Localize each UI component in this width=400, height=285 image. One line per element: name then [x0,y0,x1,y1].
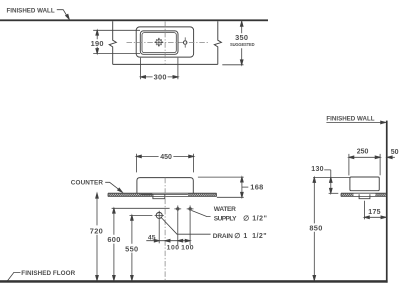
sink body (elevation) [137,178,193,194]
svg-text:600: 600 [107,235,120,244]
counter hatch left (side) [341,194,353,197]
counter hatch right (side) [375,194,386,197]
svg-text:168: 168 [250,182,263,191]
water supply leader [191,210,210,216]
svg-text:250: 250 [357,148,369,155]
dim 250 extension lines [349,154,380,176]
svg-text:FINISHED WALL: FINISHED WALL [326,115,374,122]
svg-text:175: 175 [368,209,381,216]
svg-text:FINISHED WALL: FINISHED WALL [7,8,55,15]
basin rim outer (plan) [140,31,178,54]
drain extension line down [158,220,160,243]
bottom dimension line 45/100/100 [146,240,190,242]
svg-text:350: 350 [235,33,248,42]
svg-text:WATER: WATER [214,206,236,213]
dim 168 leader [242,186,248,188]
counter top extension line (side) [329,192,339,194]
svg-text:∅ 1 1/2": ∅ 1 1/2" [234,232,267,240]
floor leader [7,272,20,281]
sink rim extension line (left) [313,177,350,179]
wall (side view, thick vertical) [386,121,388,283]
svg-text:DRAIN: DRAIN [213,233,233,240]
dim 550 line [131,215,133,280]
svg-text:190: 190 [91,39,104,48]
counter hatch right [188,194,216,197]
drain tailpiece (side view) [359,194,370,198]
dim 168 extension lines [198,177,244,197]
basin rim inner (plan) [142,33,176,53]
dim 300 extension lines [141,58,178,79]
leader to top wall [57,10,68,18]
COUNTER leader [105,182,121,191]
svg-text:100: 100 [167,245,180,252]
dim 450 extension lines (elevation) [136,154,193,173]
drain height reference line [130,214,153,216]
wall (plan view, thick horizontal) [0,19,268,21]
svg-text:COUNTER: COUNTER [71,180,104,187]
svg-text:∅ 1/2": ∅ 1/2" [243,214,267,222]
side wall leader underline [326,121,383,123]
dim 130 elbow [324,170,331,192]
faucet hole (plan) [183,41,187,45]
water supply symbol 1 [174,206,181,213]
dim 190 extension lines [93,30,140,53]
counter section (elevation) [108,193,217,196]
counter front edge (plan) [113,63,218,65]
dim 450 line [136,155,193,157]
drain cross ticks [154,38,163,47]
dim 168 line [241,177,243,197]
svg-text:SUGGESTED: SUGGESTED [230,42,255,47]
centerline (elevation, vertical) [164,178,166,280]
counter right break line with zigzag [214,21,221,64]
dim 300 line [141,76,178,78]
svg-text:FINISHED FLOOR: FINISHED FLOOR [21,270,75,277]
svg-text:50: 50 [391,149,399,156]
svg-text:100: 100 [181,245,194,252]
svg-text:720: 720 [90,226,103,235]
sink bottom line in counter hole [141,193,188,195]
vertical centerline (plan) [164,22,166,64]
dim 600 line [113,208,115,280]
svg-text:SUPPLY: SUPPLY [214,215,237,222]
sink outer rim (plan) [136,27,193,57]
dim 850 line [313,178,315,281]
horizontal centerline (plan) [127,42,210,44]
drain leader [161,217,211,234]
dim 175 line [364,216,386,218]
svg-text:45: 45 [148,235,156,242]
dim 350 line [241,21,243,64]
sink body (side view) [350,177,379,191]
counter section (side view) [341,193,386,196]
svg-text:300: 300 [154,73,167,82]
faucet hole ticks [184,37,186,47]
drain tailpiece (elevation) [153,194,165,198]
water supply height reference line [112,207,170,209]
supply extension lines down [178,212,190,245]
water supply symbol 2 [187,206,194,213]
dim 190 line [96,30,98,53]
drain (plan, ring of holes) [155,39,162,46]
dim 250 line [349,156,380,158]
counter left break line with zigzag [109,21,116,64]
floor (thick horizontal) [0,280,388,283]
350 bottom reference line [222,64,243,66]
dim 175 extension line [363,201,365,220]
counter hatch left [108,194,152,197]
svg-text:850: 850 [309,223,322,232]
dim 50 outside arrow line [388,156,395,158]
svg-text:450: 450 [160,154,172,161]
svg-text:130: 130 [311,166,324,173]
dim 720 line [96,193,98,280]
svg-text:550: 550 [125,244,138,253]
drain symbol (elevation) [156,212,162,218]
